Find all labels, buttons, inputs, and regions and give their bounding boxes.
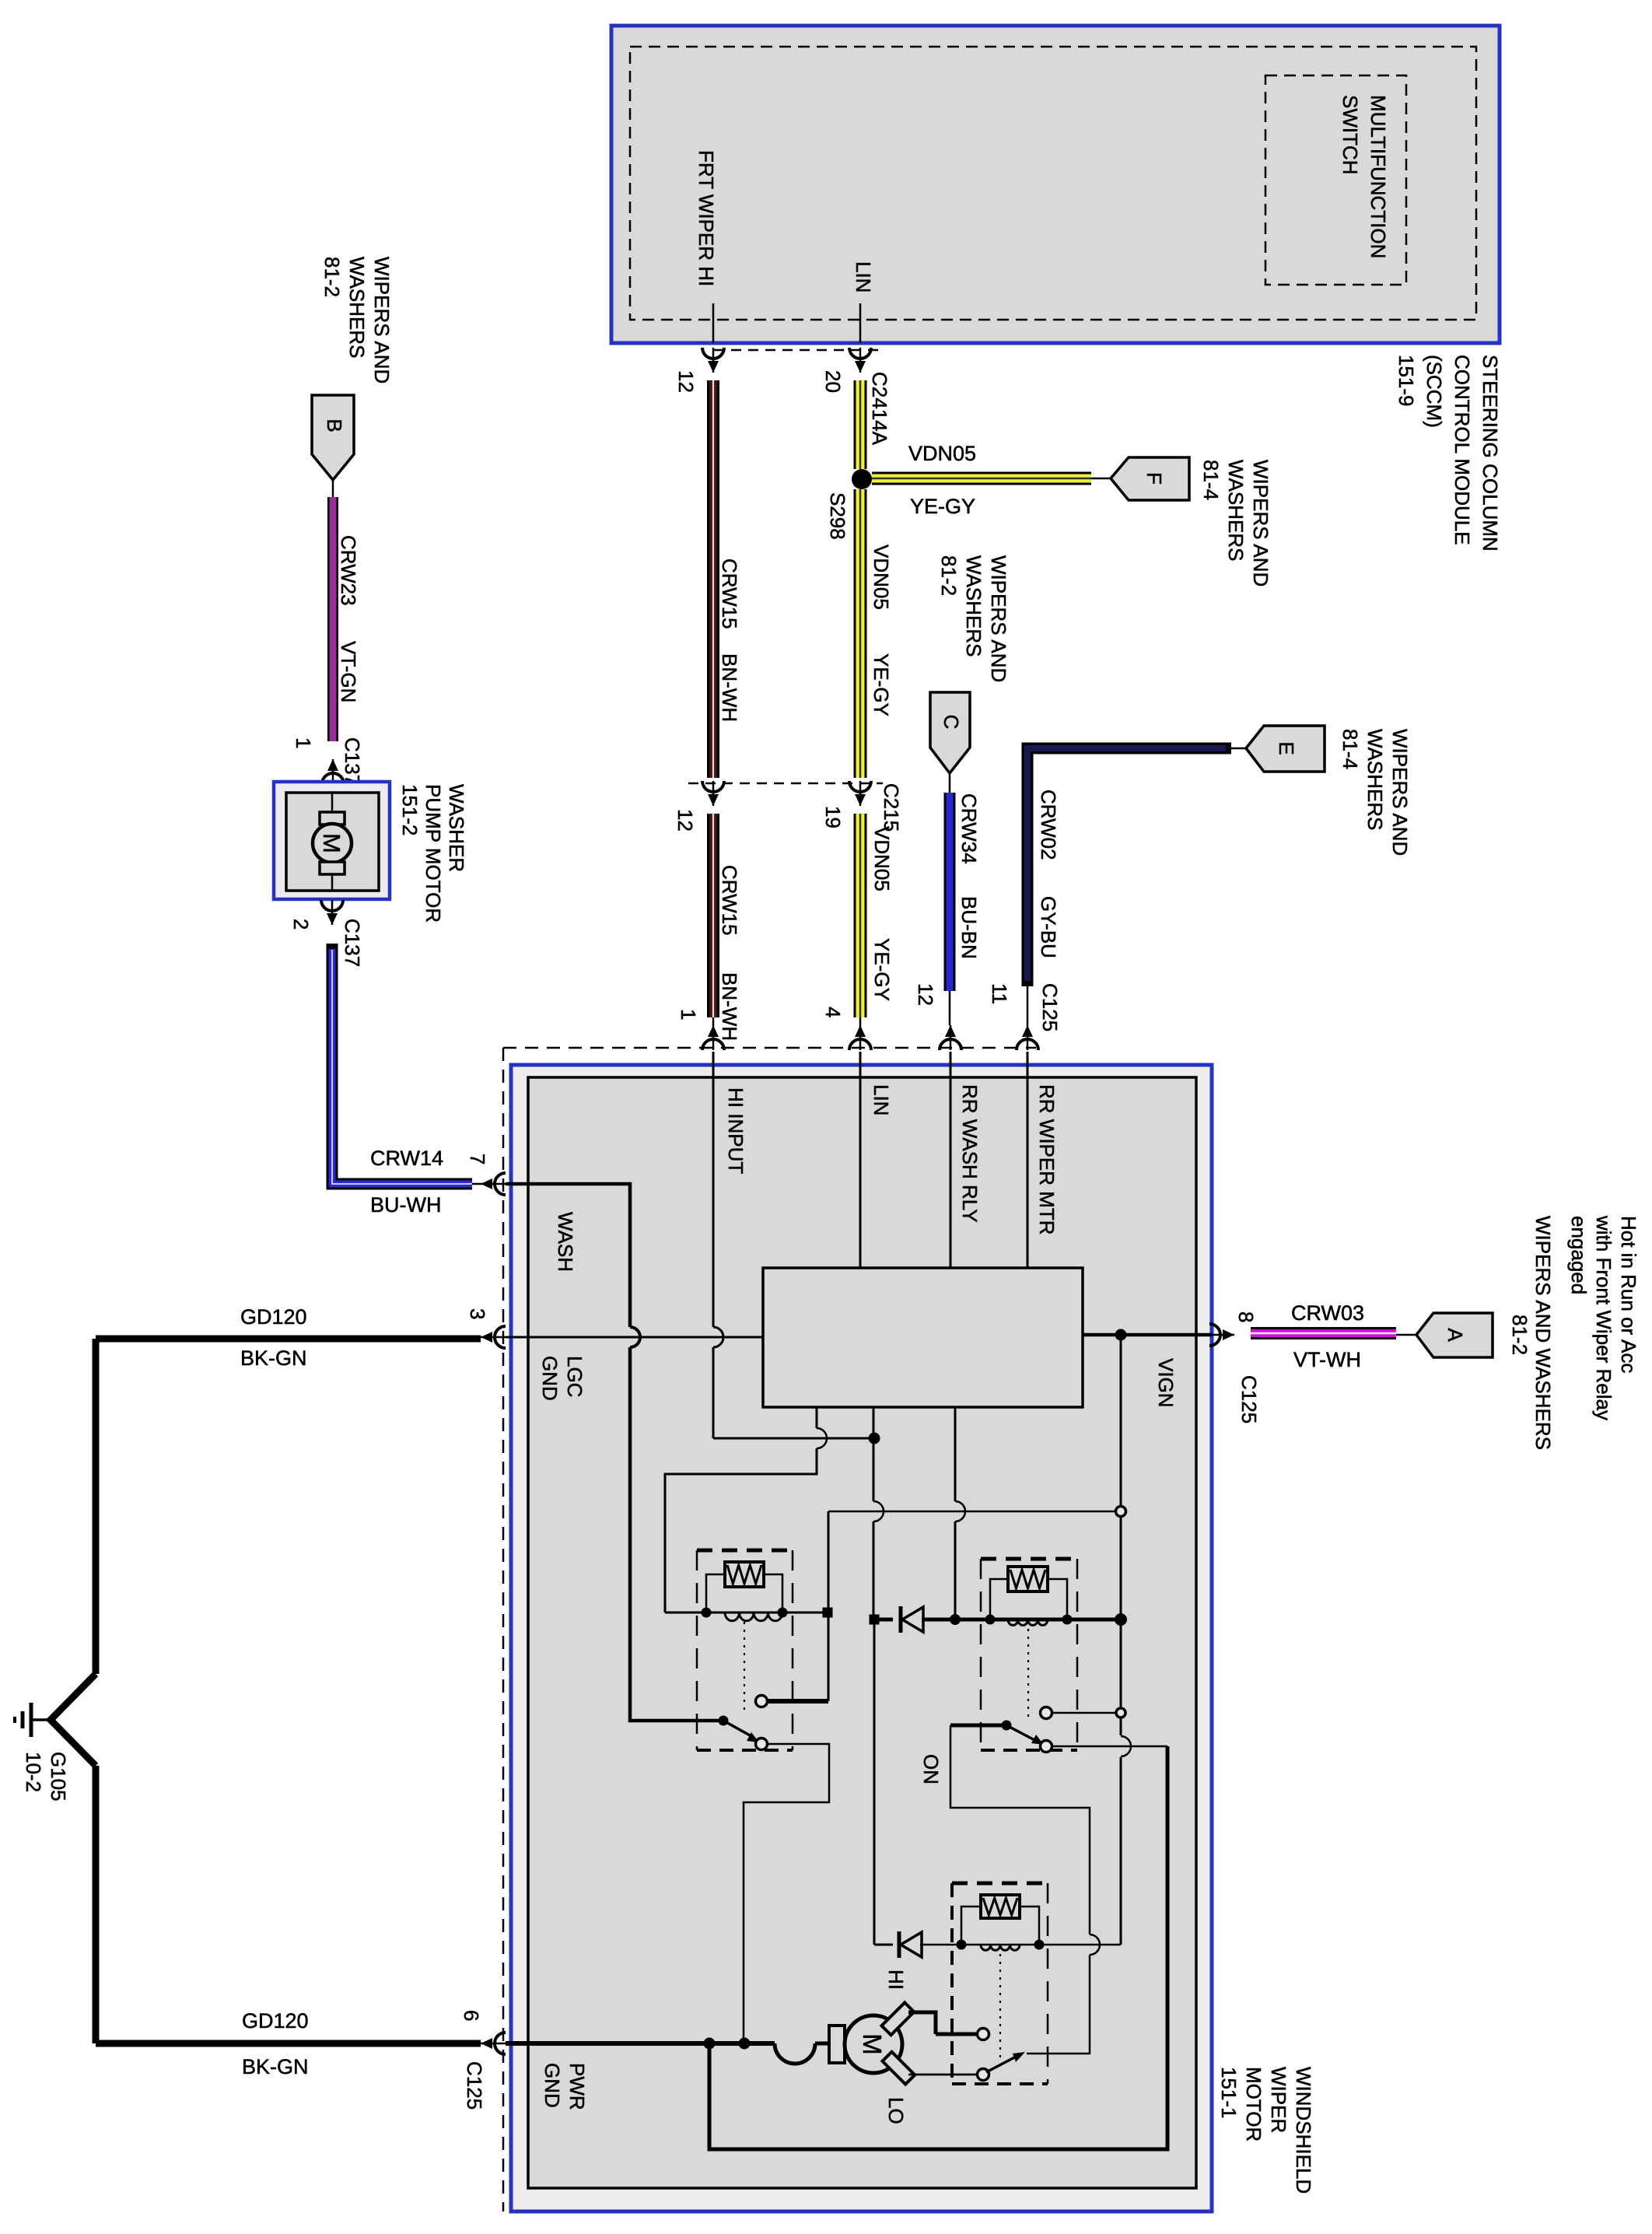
SCCM inner dashed border: [630, 47, 1476, 320]
dashed boundary vertical (left of wiper motor box): [502, 1048, 505, 2211]
wire module pin a (with hop over HI INPUT wire): [816, 1407, 818, 1428]
svg-text:G105: G105: [47, 1752, 70, 1802]
wire RR WASH RLY (pin 12 into module): [950, 1052, 952, 1268]
svg-text:PWR: PWR: [565, 2063, 589, 2110]
connector C215 dashed boundary: [688, 783, 883, 785]
svg-text:CRW23: CRW23: [337, 535, 360, 606]
svg-text:engaged: engaged: [1567, 1216, 1591, 1294]
svg-text:HI: HI: [884, 1970, 908, 1990]
wire relay 1 contact riser: [828, 1511, 830, 1701]
svg-text:M: M: [318, 833, 345, 853]
relay 1 resistor: [725, 1562, 764, 1587]
wire node b vertical (module to diode line): [873, 1407, 875, 1438]
svg-text:12: 12: [914, 983, 937, 1006]
svg-text:PUMP MOTOR: PUMP MOTOR: [422, 784, 445, 923]
node: HI INPUT / module pin junction: [869, 1433, 880, 1444]
svg-text:YE-GY: YE-GY: [870, 653, 893, 716]
wire VDN05 YE-GY segment (pin 20 to S298), yellow: [854, 380, 867, 469]
relay 3 resistor: [981, 1895, 1020, 1918]
washer pump motor box: [274, 782, 390, 899]
svg-text:6: 6: [460, 2010, 483, 2021]
SCCM internal pin stubs: [712, 303, 715, 343]
pin 19 connector symbol (C215): [849, 781, 871, 792]
svg-text:C137: C137: [341, 919, 364, 967]
svg-text:E: E: [1275, 741, 1298, 755]
svg-text:FRT WIPER HI: FRT WIPER HI: [695, 150, 718, 286]
splice S298: [852, 469, 872, 489]
svg-text:LO: LO: [884, 2097, 908, 2124]
svg-text:F: F: [1143, 472, 1166, 485]
wire CRW14 BU-WH, blue: [332, 944, 472, 1184]
svg-text:C: C: [940, 715, 963, 730]
svg-text:(SCCM): (SCCM): [1423, 355, 1446, 428]
pin 12 connector symbol (wiper motor): [940, 1039, 961, 1050]
wire HI INPUT (pin 1 into module): [712, 1052, 715, 1327]
wiper motor inner box: [528, 1077, 1196, 2188]
relay 3 dashed box: [952, 1882, 1048, 1886]
svg-text:12: 12: [674, 370, 698, 393]
relay 2 armature: [950, 1724, 1002, 1728]
svg-text:GND: GND: [538, 1356, 562, 1401]
node: diode line junctions: [870, 1615, 880, 1625]
svg-text:151-1: 151-1: [1217, 2067, 1241, 2119]
pin 3 connector symbol (LGC GND): [495, 1326, 506, 1348]
svg-text:C215: C215: [880, 783, 903, 832]
connector C: [930, 692, 970, 773]
wire RR WIPER MTR (pin 11 into module): [1027, 1052, 1029, 1268]
svg-text:WIPER: WIPER: [1267, 2067, 1290, 2133]
svg-text:BU-WH: BU-WH: [370, 1193, 441, 1217]
pin 7 connector symbol (WASH): [495, 1173, 506, 1195]
svg-text:20: 20: [821, 370, 845, 393]
svg-text:WASHERS: WASHERS: [962, 555, 985, 657]
wire PWR GND to motor: [506, 2041, 709, 2046]
wire HI INPUT horizontal to node: [713, 1437, 874, 1440]
svg-text:GND: GND: [541, 2063, 564, 2108]
svg-text:WIPERS AND: WIPERS AND: [987, 555, 1010, 682]
relay 3 actuator dotted link: [999, 1954, 1001, 2061]
svg-text:WASHERS: WASHERS: [345, 257, 369, 359]
svg-text:RR WIPER MTR: RR WIPER MTR: [1035, 1084, 1059, 1235]
diode D2: [898, 1931, 901, 1958]
ground split V: [51, 1674, 96, 1766]
svg-text:RR WASH RLY: RR WASH RLY: [958, 1084, 982, 1223]
wire relay feed line (to VIGN, with rings): [828, 1511, 1121, 1513]
svg-text:CONTROL MODULE: CONTROL MODULE: [1451, 355, 1474, 545]
svg-text:YE-GY: YE-GY: [870, 938, 894, 1001]
pin 4 connector symbol (wiper motor): [849, 1039, 871, 1050]
svg-text:VDN05: VDN05: [908, 442, 976, 465]
svg-text:81-2: 81-2: [937, 555, 961, 596]
relay 1 NO contact: [756, 1696, 768, 1707]
svg-text:VDN05: VDN05: [870, 826, 894, 891]
svg-text:11: 11: [988, 983, 1011, 1004]
svg-text:CRW14: CRW14: [370, 1147, 443, 1170]
svg-text:VT-WH: VT-WH: [1293, 1348, 1361, 1371]
relay 1 dashed box: [697, 1549, 793, 1553]
wire relay 2 common to motor selector: [950, 1725, 1090, 1935]
svg-text:151-2: 151-2: [398, 784, 422, 836]
wire CRW23 VT-GN, violet: [327, 497, 338, 741]
svg-text:S298: S298: [826, 492, 849, 540]
svg-text:4: 4: [821, 1007, 845, 1017]
svg-text:C137: C137: [341, 737, 364, 786]
wire motor LO brush to relay 3: [908, 2074, 977, 2076]
internal control module block: [763, 1268, 1083, 1407]
pin 12 connector symbol (C215): [702, 781, 724, 792]
svg-text:LIN: LIN: [852, 261, 875, 292]
svg-text:A: A: [1444, 1328, 1467, 1342]
svg-text:STEERING COLUMN: STEERING COLUMN: [1479, 355, 1502, 551]
ground symbol G105: [31, 1718, 51, 1721]
connector B: [312, 395, 354, 480]
svg-text:WASHERS: WASHERS: [1224, 460, 1248, 562]
svg-text:C125: C125: [1237, 1375, 1261, 1423]
pin 6 connector symbol (PWR GND, C125): [495, 2033, 506, 2054]
svg-text:151-9: 151-9: [1395, 355, 1418, 407]
svg-text:VIGN: VIGN: [1154, 1358, 1178, 1408]
svg-text:B: B: [323, 418, 346, 432]
relay 1 armature: [719, 1716, 729, 1726]
svg-text:GD120: GD120: [240, 1305, 307, 1329]
wire GD120 BK-GN (pin 3 to G105): [96, 1336, 481, 1343]
wire LGC GND (pin 3 to module): [506, 1336, 763, 1339]
svg-text:BN-WH: BN-WH: [718, 653, 741, 722]
svg-text:WIPERS AND: WIPERS AND: [370, 257, 394, 383]
pin 1 connector symbol (wiper motor): [702, 1039, 724, 1050]
svg-text:WASH: WASH: [554, 1212, 577, 1272]
svg-text:19: 19: [821, 806, 845, 828]
connector A: [1416, 1313, 1493, 1357]
svg-text:10-2: 10-2: [22, 1752, 45, 1792]
relay 2 resistor: [1008, 1567, 1048, 1591]
svg-text:BN-WH: BN-WH: [718, 972, 741, 1041]
svg-text:C125: C125: [1038, 983, 1062, 1031]
wire CRW03 VT-WH, violet-white: [1251, 1327, 1396, 1339]
connector E: [1246, 726, 1325, 772]
pin 1 connector symbol (C137): [322, 773, 344, 784]
svg-text:CRW15: CRW15: [718, 558, 741, 629]
svg-text:MULTIFUNCTION: MULTIFUNCTION: [1367, 95, 1390, 258]
svg-text:CRW03: CRW03: [1291, 1301, 1364, 1325]
svg-text:1: 1: [677, 1009, 700, 1020]
relay 3 HI contact: [978, 2029, 989, 2040]
svg-text:BK-GN: BK-GN: [240, 1346, 307, 1370]
svg-text:2: 2: [289, 919, 313, 930]
wire GD120 BK-GN (G105 to pin 6): [93, 1766, 100, 2043]
pin 2 connector symbol (C137): [321, 900, 343, 911]
multifunction switch dashed box: [1265, 75, 1406, 285]
svg-text:VT-GN: VT-GN: [337, 641, 360, 702]
svg-text:MOTOR: MOTOR: [1242, 2067, 1265, 2141]
relay 3 coil line from diode D2: [873, 1619, 876, 1945]
svg-text:81-4: 81-4: [1199, 460, 1223, 500]
relay 3 coil: [961, 1944, 1121, 1946]
svg-text:VDN05: VDN05: [870, 544, 893, 610]
wire node c vertical (module to relay 2 coil line): [954, 1407, 957, 1501]
svg-text:WIPERS AND WASHERS: WIPERS AND WASHERS: [1531, 1216, 1555, 1450]
svg-text:LIN: LIN: [870, 1084, 893, 1115]
svg-text:81-2: 81-2: [1508, 1315, 1531, 1355]
relay 2 coil: [1008, 1619, 1048, 1625]
svg-text:81-4: 81-4: [1339, 729, 1362, 769]
washer pump motor M: [331, 793, 334, 814]
svg-text:1: 1: [292, 737, 315, 748]
connector boundary dashed line above wiper motor box: [503, 1047, 1036, 1049]
svg-text:WIPERS AND: WIPERS AND: [1249, 460, 1272, 587]
svg-text:7: 7: [466, 1154, 489, 1164]
svg-text:YE-GY: YE-GY: [910, 495, 975, 518]
svg-text:GD120: GD120: [242, 2009, 309, 2033]
svg-text:with Front Wiper Relay: with Front Wiper Relay: [1592, 1215, 1615, 1420]
svg-text:3: 3: [466, 1308, 489, 1319]
svg-text:C125: C125: [463, 2061, 486, 2110]
relay 1 actuator dotted link: [744, 1622, 745, 1715]
pin 20 connector symbol (C2414A): [849, 348, 871, 359]
svg-text:M: M: [858, 2033, 887, 2055]
wire CRW15 BN-WH segment (C215 to pin 1), brown: [707, 814, 719, 1017]
svg-text:Hot in Run or Acc: Hot in Run or Acc: [1617, 1216, 1640, 1373]
svg-text:8: 8: [1234, 1311, 1258, 1322]
relay 1 NC contact: [756, 1739, 768, 1750]
connector C2414A dashed boundary: [714, 349, 883, 352]
relay 2 NC contact: [1041, 1741, 1052, 1753]
wire VDN05 YE-GY segment (C215 to pin 4), yellow: [854, 814, 867, 1017]
wire relay 1 coil feed line: [665, 1612, 828, 1614]
wire LIN (pin 4 into module): [859, 1052, 862, 1268]
wire VIGN output (module to pin 8): [1083, 1333, 1212, 1337]
wire VDN05 YE-GY segment (S298 to C215), yellow: [854, 489, 867, 778]
wire diode supply line (thick): [874, 1618, 893, 1622]
svg-text:BU-BN: BU-BN: [957, 896, 981, 959]
svg-text:BK-GN: BK-GN: [242, 2055, 309, 2078]
diode D1: [899, 1606, 903, 1633]
relay 2 actuator dotted link: [1027, 1629, 1029, 1719]
pin 8 connector symbol (C125): [1209, 1324, 1220, 1346]
svg-text:CRW02: CRW02: [1037, 790, 1060, 860]
svg-text:12: 12: [674, 809, 697, 832]
svg-text:CRW15: CRW15: [718, 865, 741, 936]
svg-text:CRW34: CRW34: [957, 793, 981, 864]
wire CRW02 GY-BU, dark blue: [1027, 748, 1231, 986]
wire motor HI brush to relay 3: [908, 2011, 936, 2015]
svg-text:SWITCH: SWITCH: [1339, 95, 1362, 175]
svg-text:HI INPUT: HI INPUT: [724, 1087, 747, 1174]
svg-text:WINDSHIELD: WINDSHIELD: [1292, 2067, 1315, 2194]
wire CRW34 BU-BN, blue: [944, 793, 956, 991]
steering column control module (SCCM) box: [611, 26, 1500, 343]
windshield wiper motor M: [829, 2026, 845, 2063]
svg-text:WIPERS AND: WIPERS AND: [1388, 729, 1412, 856]
svg-text:C2414A: C2414A: [868, 372, 891, 446]
pin 11 connector symbol (wiper motor): [1017, 1039, 1038, 1050]
svg-text:WASHERS: WASHERS: [1363, 729, 1387, 831]
wire WASH path (pin 7 to relay contact arm): [506, 1184, 630, 1327]
node: relay 1 coil to contact link (square): [823, 1608, 833, 1618]
wire VDN05 YE-GY branch to connector F, yellow: [872, 472, 1091, 485]
relay 1 coil: [725, 1612, 782, 1621]
svg-text:81-2: 81-2: [320, 257, 344, 297]
svg-text:ON: ON: [919, 1754, 943, 1784]
svg-text:WASHER: WASHER: [445, 784, 468, 872]
svg-text:LGC: LGC: [563, 1356, 586, 1397]
windshield wiper motor box: [511, 1065, 1212, 2211]
svg-text:GY-BU: GY-BU: [1037, 896, 1060, 958]
connector F: [1111, 457, 1189, 500]
relay 3 LO contact / armature: [978, 2069, 989, 2081]
relay 2 NO contact: [1041, 1707, 1052, 1719]
wire VIGN internal vertical: [1120, 1335, 1122, 1735]
wire CRW15 BN-WH segment (C2414A to C215), brown: [707, 380, 719, 778]
pin 12 connector symbol (C2414A): [702, 348, 724, 359]
wire relay 2 NC to power ground return: [709, 1746, 1167, 2149]
relay 2 dashed box: [981, 1557, 1077, 1561]
